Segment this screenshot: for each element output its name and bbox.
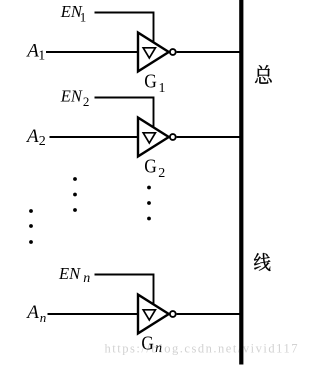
svg-text:https://blog.csdn.net/vivid117: https://blog.csdn.net/vivid117 [105,341,298,355]
svg-text:2: 2 [158,166,165,181]
svg-text:EN: EN [60,86,83,105]
svg-text:2: 2 [83,94,90,109]
svg-text:1: 1 [159,81,166,96]
svg-text:G: G [144,71,157,93]
svg-text:A: A [25,41,39,62]
svg-text:G: G [144,156,157,178]
svg-text:A: A [25,302,39,323]
svg-text:EN: EN [58,264,81,283]
svg-text:2: 2 [39,134,46,149]
svg-text:n: n [83,271,90,286]
svg-text:n: n [155,340,162,355]
svg-text:1: 1 [38,48,45,63]
svg-text:n: n [40,310,47,325]
svg-text:G: G [141,333,153,355]
svg-text:A: A [25,126,39,147]
svg-text:1: 1 [80,9,87,24]
